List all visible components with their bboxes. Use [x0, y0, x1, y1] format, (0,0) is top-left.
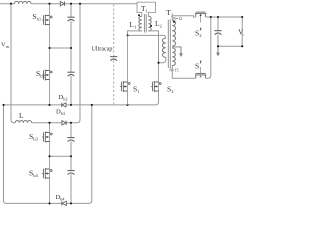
node output rail / S1' return [210, 16, 212, 18]
wire secondary top lead [172, 16, 242, 21]
wire left return drop [4, 105, 7, 203]
wire secondary bottom lead [172, 17, 211, 78]
transistor Sb3 [42, 132, 52, 143]
node mid rail / bottom return riser [91, 104, 93, 106]
transistor Sb2 [42, 70, 52, 81]
inductor L1 (T1 left winding) [139, 16, 142, 31]
diode Db4 (bottom rail, points left) [56, 194, 67, 206]
wire output right [241, 17, 243, 46]
wire L1 bottom to node A [128, 31, 142, 36]
capacitor C4 [67, 171, 74, 175]
T1 core [144, 14, 146, 33]
node output return / load bottom [241, 45, 243, 47]
wire top rail [0, 3, 137, 5]
wire S2 top to T2 primary bottom [159, 57, 166, 63]
node mid-left [2, 104, 4, 106]
node Sb1-Sb2 midpoint [48, 47, 50, 49]
node top rail / bypass drop [79, 3, 81, 5]
inductor L [15, 121, 31, 123]
capacitor C1 [67, 17, 74, 21]
wire mid rail [3, 94, 159, 105]
transistor S2 [151, 81, 161, 92]
node Sb3-Sb4 midpoint [48, 155, 50, 157]
node L line / Db3 cathode / lower cap chain top [70, 122, 72, 124]
node L line / Sb3 drain [48, 122, 50, 124]
wire S1 leg [127, 35, 129, 105]
node bottom rail / Db4 anode [70, 202, 72, 204]
wire S2 leg [158, 63, 160, 102]
diode Db3 (L line, points right) [56, 109, 66, 126]
ground arrow output [217, 46, 219, 53]
capacitor C2 [67, 72, 74, 76]
node S2 drain / T2 primary bottom [157, 62, 159, 64]
wire node A to T2 primary top [128, 35, 166, 38]
node mid rail / upper cap chain bottom [70, 104, 72, 106]
node bottom rail / Sb4 source [48, 202, 50, 204]
wire tap upper [50, 47, 72, 49]
node output rail / Co top [217, 16, 219, 18]
node lower cap chain midpoint [70, 155, 72, 157]
node output return / Co bottom [217, 45, 219, 47]
transistor Sb1 [42, 15, 52, 26]
transformer T1 top box [137, 2, 156, 16]
inductor input top [15, 1, 31, 3]
ultracap dashed link [113, 4, 115, 104]
transistor S2' [195, 12, 207, 22]
node mid rail / S1 leg [126, 104, 128, 106]
node top rail / Sb1 drain [48, 3, 50, 5]
node T2 secondary polarity dot [173, 21, 175, 23]
wire tap lower [50, 155, 72, 157]
node output rail / load top [241, 16, 243, 18]
capacitor C3 [67, 138, 74, 142]
wire Sb leg upper [49, 4, 51, 105]
node L1 polarity dot [138, 14, 140, 16]
wire Sb leg lower [49, 123, 51, 204]
node L2 polarity dot [150, 25, 152, 27]
node upper cap chain midpoint [70, 47, 72, 49]
wire bottom rail [7, 105, 92, 203]
transistor Sb4 [42, 168, 52, 179]
wire output cap branch [217, 17, 219, 46]
svg-text:Vo: Vo [238, 29, 244, 38]
capacitor ultracap [110, 57, 117, 61]
T2 primary winding [162, 38, 165, 57]
wire center tap with arrow [172, 47, 181, 54]
wire output bottom [218, 45, 242, 47]
svg-text:Ultracap: Ultracap [92, 47, 113, 53]
wire L line [15, 122, 71, 124]
T2 core [168, 20, 170, 69]
svg-text:L: L [19, 111, 24, 120]
wire Vin rail [11, 4, 15, 123]
wire lower cap chain [70, 123, 72, 204]
transistor S1 [120, 81, 130, 92]
wire upper cap chain [70, 4, 72, 105]
svg-text:N=12: N=12 [173, 16, 182, 21]
wire L2 bottom drop [148, 31, 158, 63]
inductor L2 (T1 right winding) [148, 16, 151, 31]
diode D top [60, 2, 64, 6]
svg-text:N=15: N=15 [169, 68, 178, 73]
transistor S1' [195, 70, 207, 78]
T2 secondary lower winding [172, 48, 175, 66]
node Vin top [10, 3, 12, 5]
T2 secondary upper winding [172, 21, 175, 46]
node A: L1 bottom / S1 drain / T2 primary top [126, 34, 128, 36]
node top rail / upper cap chain [70, 3, 72, 5]
node mid rail / Sb2 source [48, 104, 50, 106]
capacitor Co [214, 31, 221, 35]
wire bypass top-to-Lline [71, 4, 80, 123]
diode Db2 (mid rail, points left) [59, 94, 68, 107]
